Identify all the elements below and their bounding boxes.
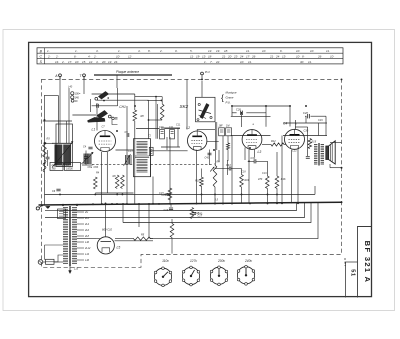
fuse xyxy=(46,259,55,264)
capacitor C5 xyxy=(84,156,88,158)
svg-text:11·: 11· xyxy=(190,54,194,58)
wire xyxy=(45,95,59,97)
wire xyxy=(262,144,271,146)
wire xyxy=(97,99,149,101)
coil box L7 xyxy=(65,163,81,171)
IF transformer T2 shield xyxy=(134,139,151,177)
title block 51 box xyxy=(346,262,358,298)
wave switch contact 2 xyxy=(97,111,108,119)
wire xyxy=(117,88,119,106)
svg-text:13·: 13· xyxy=(202,54,206,58)
svg-text:127v: 127v xyxy=(190,259,197,263)
svg-text:C11: C11 xyxy=(176,124,181,127)
capacitor C28 xyxy=(307,114,309,118)
svg-text:2·: 2· xyxy=(55,54,59,58)
svg-text:10000: 10000 xyxy=(66,168,73,171)
wire xyxy=(307,127,309,156)
svg-text:10·: 10· xyxy=(116,54,120,58)
wire xyxy=(283,135,327,137)
svg-text:26·: 26· xyxy=(317,54,322,58)
svg-text:R16: R16 xyxy=(281,178,286,181)
output transformer core xyxy=(317,143,319,166)
svg-text:390: 390 xyxy=(52,168,57,171)
rectifier tube L5 xyxy=(97,237,114,254)
svg-text:2L4: 2L4 xyxy=(84,223,90,226)
wire xyxy=(276,152,278,176)
wire xyxy=(201,169,203,178)
wire xyxy=(214,163,216,165)
svg-text:10·: 10· xyxy=(75,60,79,64)
svg-text:Musique: Musique xyxy=(226,91,237,95)
chassis terminal xyxy=(36,207,39,210)
svg-text:6·: 6· xyxy=(74,54,77,58)
svg-text:SK2: SK2 xyxy=(180,104,189,109)
wire xyxy=(44,245,46,260)
svg-text:17·: 17· xyxy=(68,60,72,64)
wire xyxy=(254,149,256,157)
wire xyxy=(126,106,128,204)
wire xyxy=(196,150,198,204)
antenna coil L40 taps xyxy=(71,92,74,95)
wire xyxy=(105,203,107,237)
wire xyxy=(171,238,173,254)
wire xyxy=(45,210,60,212)
wire xyxy=(136,128,160,130)
svg-text:23·: 23· xyxy=(233,54,238,58)
svg-text:26·: 26· xyxy=(251,54,256,58)
svg-text:3,5: 3,5 xyxy=(215,199,219,202)
measurement table box xyxy=(37,48,343,64)
svg-text:18·: 18· xyxy=(224,49,228,53)
svg-text:12·: 12· xyxy=(128,54,132,58)
svg-text:11·: 11· xyxy=(308,60,312,64)
dashed selector lead xyxy=(344,258,346,266)
svg-text:24·: 24· xyxy=(275,54,280,58)
capacitor C26 xyxy=(240,111,242,115)
resistor R1 xyxy=(133,110,137,121)
wire xyxy=(241,187,243,204)
AVC dashed line xyxy=(92,163,134,165)
wire xyxy=(330,142,342,144)
wire xyxy=(329,164,331,168)
svg-text:R11: R11 xyxy=(245,179,250,182)
svg-text:11·: 11· xyxy=(248,60,252,64)
misc small labels xyxy=(47,86,324,216)
wire xyxy=(45,244,64,246)
svg-text:140: 140 xyxy=(75,95,80,99)
wire xyxy=(265,106,267,127)
svg-text:5·: 5· xyxy=(190,49,193,53)
IFT secondary winding xyxy=(137,160,148,173)
resistor R6 xyxy=(121,175,125,189)
wire xyxy=(59,77,61,143)
return wire 3 xyxy=(123,203,311,223)
voltage selector 127v xyxy=(182,266,199,286)
svg-text:C18: C18 xyxy=(241,171,246,174)
svg-text:C30: C30 xyxy=(304,130,309,133)
svg-text:1·: 1· xyxy=(118,49,121,53)
svg-text:L13: L13 xyxy=(74,268,79,271)
resistor R18 xyxy=(190,208,194,219)
svg-text:13·: 13· xyxy=(108,60,112,64)
svg-text:17·: 17· xyxy=(246,54,250,58)
mains switch arrow xyxy=(46,206,51,208)
wire xyxy=(150,238,153,240)
resistor R5 xyxy=(115,175,119,189)
dashed chassis enclosure xyxy=(42,79,342,267)
resistor R13 xyxy=(266,176,270,188)
svg-text:14·: 14· xyxy=(55,60,59,64)
coil L8 xyxy=(43,160,46,172)
return wire 1 xyxy=(60,203,297,211)
capacitor C14 xyxy=(167,193,171,195)
wire xyxy=(283,122,327,124)
tuning gang frame xyxy=(56,124,73,167)
svg-text:10·: 10· xyxy=(330,54,334,58)
tuning gang C1a xyxy=(55,145,62,166)
wire xyxy=(43,120,72,122)
switch cam xyxy=(88,117,106,122)
mains transformer T1 primary winding xyxy=(63,208,68,264)
svg-text:L14: L14 xyxy=(85,253,90,256)
svg-text:Grave: Grave xyxy=(226,96,234,100)
wire xyxy=(66,121,68,143)
coupling cap C22 boxed xyxy=(226,128,232,136)
svg-text:4·: 4· xyxy=(138,49,141,53)
wire xyxy=(214,122,216,165)
terminal T xyxy=(83,74,86,77)
svg-text:24·: 24· xyxy=(113,60,118,64)
return wire 2 xyxy=(66,203,305,218)
wire xyxy=(177,128,179,147)
junction xyxy=(248,160,250,162)
wire xyxy=(246,112,266,114)
svg-text:15·: 15· xyxy=(82,60,86,64)
resistor R14 xyxy=(275,176,279,188)
svg-text:L5: L5 xyxy=(117,246,121,250)
wire xyxy=(289,106,291,127)
wire xyxy=(45,142,54,144)
wire xyxy=(244,148,246,161)
junction xyxy=(341,167,343,169)
wire xyxy=(96,103,98,131)
svg-text:C43: C43 xyxy=(226,164,231,167)
tube L1 xyxy=(95,131,116,152)
wire xyxy=(122,204,124,223)
chassis bus xyxy=(39,202,342,205)
switch SK2 box xyxy=(196,97,216,122)
resistor R17 xyxy=(170,224,174,238)
output transformer T3 primary xyxy=(314,145,317,165)
voltage selector 110v xyxy=(154,267,171,287)
wire xyxy=(294,120,296,129)
svg-text:20·: 20· xyxy=(227,54,232,58)
wire xyxy=(314,186,316,194)
wire xyxy=(207,141,219,143)
table row C values xyxy=(47,54,334,58)
svg-text:C11: C11 xyxy=(169,126,174,129)
table row divider 1 xyxy=(37,52,343,54)
heater resistor R20 xyxy=(134,237,151,240)
svg-text:L3: L3 xyxy=(258,150,262,154)
wire xyxy=(330,167,342,169)
svg-text:600·C10: 600·C10 xyxy=(102,228,113,232)
output transformer T3 secondary xyxy=(321,145,324,165)
svg-text:C19: C19 xyxy=(262,172,267,175)
svg-text:2·: 2· xyxy=(159,49,163,53)
svg-text:20·: 20· xyxy=(101,60,106,64)
svg-text:10·: 10· xyxy=(240,60,244,64)
wire xyxy=(148,100,150,139)
wire xyxy=(231,168,242,170)
svg-text:13·: 13· xyxy=(208,49,212,53)
svg-text:C33: C33 xyxy=(251,157,256,160)
svg-text:11·: 11· xyxy=(246,49,250,53)
wire xyxy=(222,136,224,204)
capacitor C40 xyxy=(208,152,212,154)
transformer core xyxy=(68,206,70,266)
wire xyxy=(291,150,293,204)
svg-text:2·: 2· xyxy=(93,54,97,58)
resistor R2 xyxy=(160,104,164,120)
capacitor C10 boxed xyxy=(160,130,165,139)
wire xyxy=(44,95,46,205)
wire xyxy=(170,204,172,207)
svg-text:4·: 4· xyxy=(96,60,99,64)
svg-text:C10: C10 xyxy=(159,126,164,129)
wire xyxy=(232,105,290,107)
wire xyxy=(92,93,135,95)
svg-text:C13: C13 xyxy=(128,150,133,153)
wire xyxy=(209,150,211,166)
svg-text:11·: 11· xyxy=(326,49,330,53)
wire xyxy=(164,128,180,130)
trimmer C8 xyxy=(84,154,91,165)
wire xyxy=(161,127,180,129)
capacitor C4 xyxy=(88,146,92,148)
switch SK2 contacts xyxy=(200,104,209,119)
transformer ground arrow xyxy=(69,266,71,271)
svg-text:L40: L40 xyxy=(68,86,73,89)
wire xyxy=(152,177,154,205)
svg-text:1·: 1· xyxy=(204,60,207,64)
svg-text:L10: L10 xyxy=(85,241,90,244)
wire xyxy=(281,136,283,204)
wire xyxy=(305,116,307,123)
svg-text:3·: 3· xyxy=(96,49,99,53)
resistor R11 xyxy=(240,175,244,187)
table row divider 2 xyxy=(37,58,343,60)
capacitor C31 xyxy=(306,156,310,158)
wire xyxy=(134,121,136,204)
svg-text:2L8: 2L8 xyxy=(84,235,90,238)
transformer taps xyxy=(77,211,84,213)
wire xyxy=(248,160,254,162)
wire xyxy=(112,120,118,125)
svg-text:8·: 8· xyxy=(148,49,151,53)
svg-text:C26: C26 xyxy=(236,108,241,112)
tuning gang C1b xyxy=(64,145,71,166)
svg-text:10·: 10· xyxy=(296,54,300,58)
svg-text:13·: 13· xyxy=(282,54,286,58)
wire xyxy=(151,150,188,152)
table row B values xyxy=(47,49,330,53)
wire xyxy=(231,136,233,204)
svg-text:4·: 4· xyxy=(88,54,91,58)
wire xyxy=(83,77,85,94)
wire xyxy=(318,123,320,136)
svg-text:21·: 21· xyxy=(269,54,274,58)
coupling resistor R12 xyxy=(271,143,284,146)
wire xyxy=(248,149,250,203)
svg-text:2U: 2U xyxy=(84,211,88,214)
wire xyxy=(115,238,134,240)
svg-text:L1: L1 xyxy=(92,128,96,132)
svg-text:C28: C28 xyxy=(303,111,308,115)
svg-text:C40: C40 xyxy=(205,157,210,160)
wire xyxy=(83,93,85,95)
wire xyxy=(149,119,163,121)
wire xyxy=(295,126,308,128)
volume potentiometer R9 xyxy=(213,165,217,187)
tuning gang arrow xyxy=(52,142,73,168)
svg-text:C40: C40 xyxy=(198,213,203,216)
svg-text:C16: C16 xyxy=(164,209,169,212)
svg-text:240v: 240v xyxy=(244,259,252,263)
svg-text:24·: 24· xyxy=(239,54,244,58)
svg-text:R15: R15 xyxy=(312,141,317,144)
wire xyxy=(161,97,163,104)
svg-text:C15: C15 xyxy=(159,192,164,195)
resistor R3 xyxy=(43,142,47,157)
wire xyxy=(214,187,216,204)
svg-text:8·: 8· xyxy=(302,54,305,58)
capacitor C16 xyxy=(169,207,173,209)
svg-text:10·: 10· xyxy=(262,49,266,53)
wire xyxy=(106,152,108,193)
svg-text:L16: L16 xyxy=(85,259,90,262)
svg-text:2L2: 2L2 xyxy=(84,217,90,220)
IFT core xyxy=(135,155,149,157)
wire xyxy=(116,149,134,151)
wire xyxy=(116,75,118,88)
wire xyxy=(54,255,63,262)
svg-text:CH1: CH1 xyxy=(119,105,126,109)
capacitor C43 xyxy=(228,167,230,171)
svg-text:10·: 10· xyxy=(310,49,314,53)
wire xyxy=(100,152,102,204)
wire xyxy=(147,99,162,101)
oscillator trimmer C12 xyxy=(126,155,132,165)
wire xyxy=(150,150,152,177)
resistor R21 xyxy=(227,143,230,150)
wire xyxy=(96,238,100,240)
wire xyxy=(276,188,278,203)
wire xyxy=(227,160,229,175)
wire xyxy=(155,97,157,139)
padder capacitor C3 xyxy=(96,104,98,108)
bias line xyxy=(95,192,133,194)
wire xyxy=(72,114,96,116)
wire xyxy=(218,150,220,162)
wire xyxy=(166,137,168,150)
svg-text:1·: 1· xyxy=(75,49,78,53)
wire xyxy=(68,88,70,143)
svg-text:18F: 18F xyxy=(219,125,224,128)
capacitor C33 xyxy=(253,159,255,163)
svg-text:C22: C22 xyxy=(292,150,297,153)
svg-text:2·: 2· xyxy=(47,54,51,58)
svg-text:9·: 9· xyxy=(175,49,178,53)
wire xyxy=(55,261,64,263)
resistor R7 xyxy=(168,188,172,200)
wire xyxy=(135,96,162,98)
tube L2 xyxy=(188,131,207,150)
svg-text:19·: 19· xyxy=(196,54,200,58)
title block outline xyxy=(358,227,372,298)
svg-text:2L12: 2L12 xyxy=(84,247,91,250)
wire xyxy=(231,106,233,116)
AVC line xyxy=(45,193,316,195)
svg-text:2·: 2· xyxy=(61,60,65,64)
wire xyxy=(43,261,46,263)
terminal A xyxy=(59,74,62,77)
voltage selector 240v xyxy=(237,265,254,285)
svg-text:R12: R12 xyxy=(271,140,276,143)
transformer top leads xyxy=(62,204,64,206)
switch contact xyxy=(112,117,115,120)
svg-text:200v: 200v xyxy=(217,259,225,263)
svg-text:100=: 100= xyxy=(75,92,81,96)
wire xyxy=(138,204,140,227)
wire xyxy=(169,137,171,204)
wire xyxy=(57,96,59,144)
voltage selector 200v xyxy=(210,266,227,286)
svg-text:30·: 30· xyxy=(300,60,304,64)
wire xyxy=(201,81,203,97)
svg-text:1·: 1· xyxy=(47,49,50,53)
wire xyxy=(284,144,286,146)
wire xyxy=(77,238,96,240)
wire xyxy=(45,217,66,219)
capacitor C11 boxed xyxy=(170,130,175,139)
coupling cap C21 boxed xyxy=(219,128,225,136)
svg-text:6·: 6· xyxy=(280,49,283,53)
svg-text:L4: L4 xyxy=(284,122,288,126)
wire xyxy=(231,135,271,137)
wire xyxy=(157,104,159,139)
svg-text:470: 470 xyxy=(258,178,263,181)
svg-text:{: { xyxy=(221,93,224,103)
wire xyxy=(241,113,243,127)
svg-text:BF 321 A: BF 321 A xyxy=(363,241,372,284)
terminal PU xyxy=(201,72,204,75)
capacitor C17 xyxy=(192,212,196,214)
coil box L6 xyxy=(50,163,63,171)
wire xyxy=(161,146,180,148)
wire xyxy=(216,122,218,150)
tube L4 xyxy=(285,129,305,149)
wire xyxy=(134,94,136,110)
wire xyxy=(171,219,173,224)
svg-text:7·: 7· xyxy=(210,60,213,64)
wire xyxy=(227,136,229,143)
wire xyxy=(267,161,269,176)
wire xyxy=(297,148,299,204)
resistor R15 xyxy=(308,139,312,149)
resistor R4 xyxy=(94,177,98,189)
wire xyxy=(241,169,243,175)
